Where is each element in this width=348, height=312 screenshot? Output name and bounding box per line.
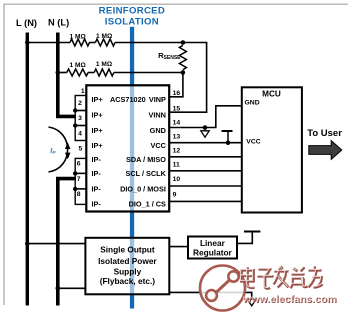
ground symbol at GND wire bbox=[201, 128, 209, 138]
MCU U2 box bbox=[242, 87, 302, 212]
VCC rail tap symbol at regulator output bbox=[244, 231, 260, 233]
junction dot boxes 3-4 bbox=[73, 123, 77, 127]
junction dot row2 at Rsense bottom bbox=[181, 70, 186, 75]
current direction double arrow on arc bbox=[65, 142, 71, 159]
svg-text:1 MΩ: 1 MΩ bbox=[96, 61, 113, 68]
power supply label text bbox=[98, 245, 157, 287]
svg-text:IP+: IP+ bbox=[92, 126, 103, 135]
svg-text:13: 13 bbox=[173, 134, 181, 141]
svg-text:14: 14 bbox=[173, 119, 181, 126]
value label 1 MOhm (R3) bbox=[70, 62, 87, 69]
svg-text:Supply: Supply bbox=[114, 267, 142, 277]
isolation barrier solid segment between chip and power supply bbox=[130, 212, 134, 238]
svg-text:SCL / SCLK: SCL / SCLK bbox=[125, 169, 166, 178]
svg-text:15: 15 bbox=[173, 105, 181, 112]
svg-text:IP-: IP- bbox=[92, 200, 102, 209]
wire N bus to power supply bbox=[58, 287, 86, 289]
VCC rail tap symbol (T) bbox=[222, 131, 233, 143]
junction dot boxes 6-7 bbox=[73, 171, 77, 175]
wire pin 10 DIO_0/MOSI to MCU bbox=[169, 185, 242, 187]
svg-text:Single Output: Single Output bbox=[100, 245, 155, 255]
resistor R4 (1 MOhm) bbox=[94, 69, 114, 76]
wire pin 13 VCC to MCU bbox=[169, 142, 242, 144]
pin box 6 bbox=[75, 158, 86, 173]
wire linear regulator output to VCC rail bbox=[237, 233, 252, 244]
current arc Ip bbox=[49, 127, 68, 172]
junction dot VCC at rail tap bbox=[226, 140, 231, 145]
resistor R3 (1 MOhm) bbox=[67, 69, 88, 76]
svg-text:To User: To User bbox=[307, 128, 342, 139]
value label 1 MOhm (R1) bbox=[70, 34, 87, 41]
svg-text:IP+: IP+ bbox=[92, 95, 103, 104]
svg-text:RSENSE: RSENSE bbox=[158, 51, 181, 61]
pin numbers 1-8 bbox=[77, 88, 85, 198]
svg-text:IP+: IP+ bbox=[92, 141, 103, 150]
wire L bus to power supply bbox=[27, 243, 85, 245]
svg-text:(Flyback, etc.): (Flyback, etc.) bbox=[100, 276, 156, 286]
wire pin 11 SCL/SCLK to MCU bbox=[169, 170, 242, 172]
svg-text:IP-: IP- bbox=[92, 155, 102, 164]
svg-text:www.elecfans.com: www.elecfans.com bbox=[242, 293, 337, 305]
svg-text:SDA / MISO: SDA / MISO bbox=[126, 155, 166, 164]
svg-text:1 MΩ: 1 MΩ bbox=[96, 33, 113, 40]
isolation barrier through ACS71020 (light segment) bbox=[130, 85, 134, 211]
svg-text:6: 6 bbox=[77, 161, 81, 168]
chip name label ACS71020 bbox=[110, 95, 146, 104]
junction dot boxes 2-3 bbox=[73, 108, 77, 112]
reinforced isolation barrier (blue vertical line, upper solid segment) bbox=[130, 27, 134, 86]
svg-text:DIO_0 / MOSI: DIO_0 / MOSI bbox=[120, 184, 166, 193]
svg-text:1: 1 bbox=[81, 88, 85, 95]
svg-text:VCC: VCC bbox=[150, 141, 166, 150]
junction dot boxes 7-8 bbox=[73, 187, 77, 191]
value label Rsense bbox=[158, 51, 181, 61]
value label 1 MOhm (R2) bbox=[96, 33, 113, 40]
pin box 7 bbox=[75, 173, 86, 189]
wire row1 from L bus to resistors bbox=[27, 42, 70, 44]
resistor R2 (1 MOhm) bbox=[95, 39, 115, 46]
value label 1 MOhm (R4) bbox=[96, 61, 113, 68]
power supply PS1 box bbox=[85, 238, 169, 294]
MCU pin label GND bbox=[245, 99, 260, 106]
isolation barrier lower solid segment bbox=[130, 294, 134, 308]
resistor R1 (1 MOhm) bbox=[70, 39, 90, 46]
watermark url text bbox=[242, 293, 337, 306]
To User block arrow bbox=[309, 141, 342, 160]
svg-text:IP+: IP+ bbox=[92, 111, 103, 120]
svg-text:MCU: MCU bbox=[262, 89, 281, 98]
bus N(L) lower vertical wire from IP- pins bbox=[58, 179, 76, 306]
svg-text:12: 12 bbox=[173, 148, 181, 155]
wire between R1 and R2 bbox=[89, 42, 95, 44]
wire between R3 and R4 bbox=[88, 72, 94, 74]
wire power supply return to ground bbox=[169, 292, 251, 299]
label To User bbox=[307, 128, 342, 139]
junction dot row1 at Rsense top bbox=[181, 40, 186, 45]
svg-text:IP-: IP- bbox=[92, 169, 102, 178]
svg-text:REINFORCED: REINFORCED bbox=[99, 5, 165, 16]
label Ip bbox=[50, 146, 56, 156]
wire row2 from N bus to resistors bbox=[58, 72, 67, 74]
wire pin 12 SDA/MISO to MCU bbox=[169, 156, 242, 158]
svg-text:1 MΩ: 1 MΩ bbox=[70, 62, 87, 69]
linear regulator U3 box bbox=[188, 237, 237, 259]
svg-text:IP-: IP- bbox=[92, 184, 102, 193]
junction dot GND wire bbox=[203, 125, 208, 130]
pin box 3 bbox=[75, 111, 86, 126]
svg-text:7: 7 bbox=[77, 176, 81, 183]
svg-text:11: 11 bbox=[173, 162, 180, 169]
pin box 8 bbox=[75, 189, 86, 205]
svg-text:N (L): N (L) bbox=[48, 18, 69, 28]
wire pin 9 DIO_1/CS to MCU bbox=[169, 200, 242, 202]
svg-text:IP: IP bbox=[50, 146, 56, 156]
svg-text:Regulator: Regulator bbox=[193, 247, 232, 257]
pin box 4 bbox=[75, 126, 86, 141]
svg-text:ISOLATION: ISOLATION bbox=[105, 16, 159, 27]
bus N(L) upper vertical wire into IP+ pins bbox=[58, 33, 76, 117]
svg-text:16: 16 bbox=[173, 90, 181, 97]
node label L (N) bbox=[16, 18, 37, 28]
watermark logo circle bbox=[200, 266, 245, 311]
junction dot row2 at N bus bbox=[56, 70, 61, 75]
ground symbol at power supply return bbox=[247, 299, 256, 306]
svg-text:1 MΩ: 1 MΩ bbox=[70, 34, 87, 41]
svg-text:3: 3 bbox=[78, 115, 82, 122]
pin box 2 bbox=[75, 96, 86, 111]
svg-text:10: 10 bbox=[173, 176, 181, 183]
wire row1 to VINN corner and down to pin 15 bbox=[115, 43, 207, 113]
label REINFORCED ISOLATION bbox=[99, 5, 165, 27]
resistor Rsense (vertical) bbox=[179, 45, 186, 69]
svg-text:8: 8 bbox=[77, 191, 81, 198]
svg-text:VINP: VINP bbox=[149, 95, 166, 104]
svg-text:GND: GND bbox=[150, 126, 166, 135]
svg-text:VINN: VINN bbox=[148, 111, 165, 120]
isolation barrier through power supply box (light segment) bbox=[130, 238, 134, 294]
pin numbers 16-9 bbox=[173, 90, 181, 198]
svg-text:ACS71020: ACS71020 bbox=[110, 95, 146, 104]
wire row2 to Rsense bottom and down to pin 16 VINP bbox=[114, 73, 183, 97]
linear regulator label bbox=[193, 238, 232, 257]
junction dot power supply wire at L bus bbox=[25, 241, 30, 246]
bus L(N) vertical wire bbox=[26, 33, 29, 306]
junction dot row1 at L bus bbox=[25, 40, 30, 45]
op-amp U1 ACS71020 body bbox=[86, 85, 169, 211]
svg-text:VCC: VCC bbox=[246, 139, 260, 146]
junction dot power supply wire at N bus bbox=[56, 286, 61, 291]
svg-text:GND: GND bbox=[245, 99, 260, 106]
svg-text:DIO_1 / CS: DIO_1 / CS bbox=[129, 200, 166, 209]
node label N (L) bbox=[48, 18, 69, 28]
MCU pin label VCC bbox=[246, 139, 260, 146]
svg-text:5: 5 bbox=[79, 145, 83, 152]
wire pin 14 GND to MCU bbox=[169, 106, 242, 128]
svg-text:L (N): L (N) bbox=[16, 18, 37, 28]
label MCU bbox=[262, 89, 281, 98]
watermark chinese characters (approximate strokes) bbox=[242, 266, 323, 288]
svg-text:2: 2 bbox=[78, 100, 82, 107]
svg-text:Isolated Power: Isolated Power bbox=[98, 256, 157, 266]
pin labels IP+ / IP- bbox=[92, 95, 103, 209]
wire power supply to linear regulator bbox=[169, 246, 188, 248]
svg-text:4: 4 bbox=[78, 130, 82, 137]
svg-text:9: 9 bbox=[173, 191, 177, 198]
right pin labels VINP..CS bbox=[120, 95, 167, 209]
